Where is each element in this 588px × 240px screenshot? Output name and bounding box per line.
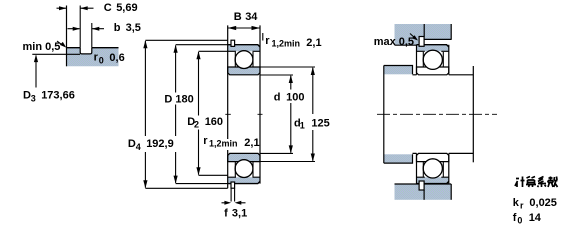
svg-text:3: 3 [31, 93, 36, 103]
svg-text:D: D [164, 94, 172, 106]
svg-text:min 0,5: min 0,5 [23, 41, 61, 53]
svg-text:k: k [513, 197, 520, 209]
svg-text:2,1: 2,1 [244, 137, 259, 149]
svg-text:D: D [23, 89, 31, 101]
svg-text:0: 0 [517, 215, 522, 224]
svg-text:125: 125 [311, 117, 329, 129]
svg-text:180: 180 [175, 94, 193, 106]
svg-text:B: B [234, 11, 242, 23]
svg-text:C: C [104, 2, 112, 14]
svg-text:0,6: 0,6 [109, 52, 124, 64]
svg-text:D: D [128, 138, 136, 150]
svg-text:f: f [513, 212, 517, 224]
svg-text:14: 14 [529, 212, 542, 224]
svg-text:2: 2 [194, 120, 199, 130]
svg-text:5,69: 5,69 [116, 2, 137, 14]
svg-text:100: 100 [286, 92, 304, 104]
svg-text:1: 1 [300, 121, 305, 131]
svg-text:192,9: 192,9 [146, 138, 174, 150]
svg-text:r: r [520, 201, 524, 211]
svg-text:1,2min: 1,2min [209, 139, 238, 149]
svg-text:max 0,5: max 0,5 [374, 36, 414, 48]
svg-text:r: r [203, 135, 208, 147]
svg-text:r: r [265, 35, 270, 47]
svg-text:0,025: 0,025 [529, 197, 557, 209]
svg-text:2,1: 2,1 [306, 37, 321, 49]
svg-text:3,1: 3,1 [232, 208, 247, 220]
svg-text:160: 160 [205, 116, 223, 128]
svg-text:d: d [274, 92, 281, 104]
svg-text:b: b [114, 22, 121, 34]
svg-text:34: 34 [245, 11, 258, 23]
svg-text:f: f [224, 208, 228, 220]
svg-text:1,2min: 1,2min [272, 39, 301, 49]
svg-text:0: 0 [99, 56, 104, 66]
svg-text:4: 4 [136, 142, 141, 152]
svg-text:173,66: 173,66 [41, 89, 75, 101]
svg-text:3,5: 3,5 [126, 22, 141, 34]
